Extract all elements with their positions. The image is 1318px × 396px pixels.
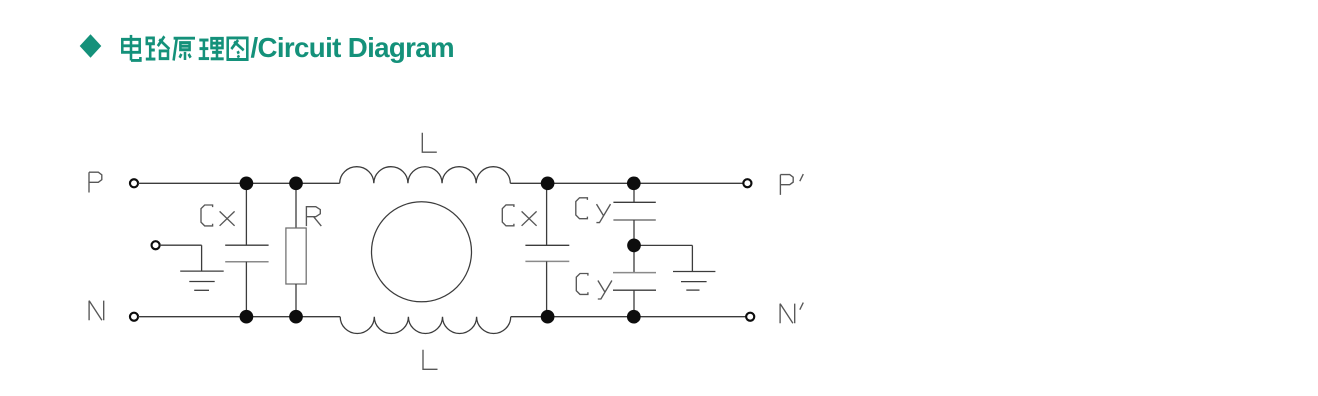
wire Cy1 lower bbox=[633, 220, 635, 245]
terminal N' bbox=[746, 313, 754, 321]
label Cx (second) bbox=[502, 205, 536, 226]
label R bbox=[306, 207, 321, 226]
junction Cy midpoint bbox=[627, 239, 641, 253]
wire top rail right (choke to P') bbox=[510, 182, 743, 184]
label L bottom bbox=[423, 350, 438, 370]
inductor L top winding bbox=[340, 167, 511, 184]
wire Cx1 lower bbox=[245, 262, 247, 317]
svg-text:/Circuit Diagram: /Circuit Diagram bbox=[251, 32, 454, 63]
wire bottom rail right (choke to N') bbox=[511, 316, 746, 318]
capacitor Cy1 bbox=[613, 202, 655, 220]
junction top Cy bbox=[627, 176, 641, 190]
junction top Cx1 bbox=[240, 176, 254, 190]
junction top Cx2 bbox=[541, 176, 555, 190]
label Cy (lower) bbox=[576, 274, 612, 300]
wire left ground horizontal bbox=[160, 244, 202, 246]
junction bottom Cy bbox=[627, 310, 641, 324]
label N bbox=[89, 301, 104, 321]
wire R lower bbox=[295, 284, 297, 317]
wire bottom rail left (N to choke) bbox=[138, 316, 340, 318]
label Cx (first) bbox=[201, 205, 235, 226]
wire R upper bbox=[295, 183, 297, 228]
junction bottom Cx2 bbox=[541, 310, 555, 324]
label N' bbox=[780, 303, 803, 324]
junction bottom Cx1 bbox=[240, 310, 254, 324]
label P bbox=[89, 172, 102, 192]
terminal P bbox=[130, 179, 138, 187]
wire right ground horizontal bbox=[634, 244, 692, 246]
junction top R bbox=[289, 176, 303, 190]
wire Cx1 upper bbox=[245, 183, 247, 245]
core circle of common-mode choke L bbox=[372, 202, 472, 302]
ground symbol right bbox=[673, 272, 715, 291]
junction bottom R bbox=[289, 310, 303, 324]
terminal P' bbox=[743, 179, 751, 187]
capacitor Cx2 bbox=[525, 245, 569, 261]
wire top rail left (P to choke) bbox=[138, 182, 340, 184]
title text 电路原理图 (drawn strokes) bbox=[122, 35, 247, 61]
wire Cx2 upper bbox=[546, 183, 548, 245]
inductor L bottom winding bbox=[340, 317, 511, 334]
ground symbol left bbox=[180, 271, 224, 290]
capacitor Cx1 bbox=[225, 245, 268, 262]
wire right ground vertical bbox=[691, 245, 693, 271]
wire Cy2 upper bbox=[633, 245, 635, 272]
resistor R bbox=[286, 228, 306, 284]
label P' bbox=[780, 174, 803, 195]
wire Cy2 lower bbox=[633, 290, 635, 317]
wire Cx2 lower bbox=[546, 261, 548, 316]
wire Cy1 upper bbox=[633, 183, 635, 202]
capacitor Cy2 bbox=[613, 273, 656, 291]
title bullet diamond bbox=[80, 34, 102, 57]
title text /Circuit Diagram bbox=[251, 32, 454, 63]
label Cy (upper) bbox=[576, 198, 611, 223]
wire left ground vertical bbox=[201, 245, 203, 271]
ground terminal (left) bbox=[152, 241, 160, 249]
terminal N bbox=[130, 313, 138, 321]
label L top bbox=[422, 133, 437, 153]
